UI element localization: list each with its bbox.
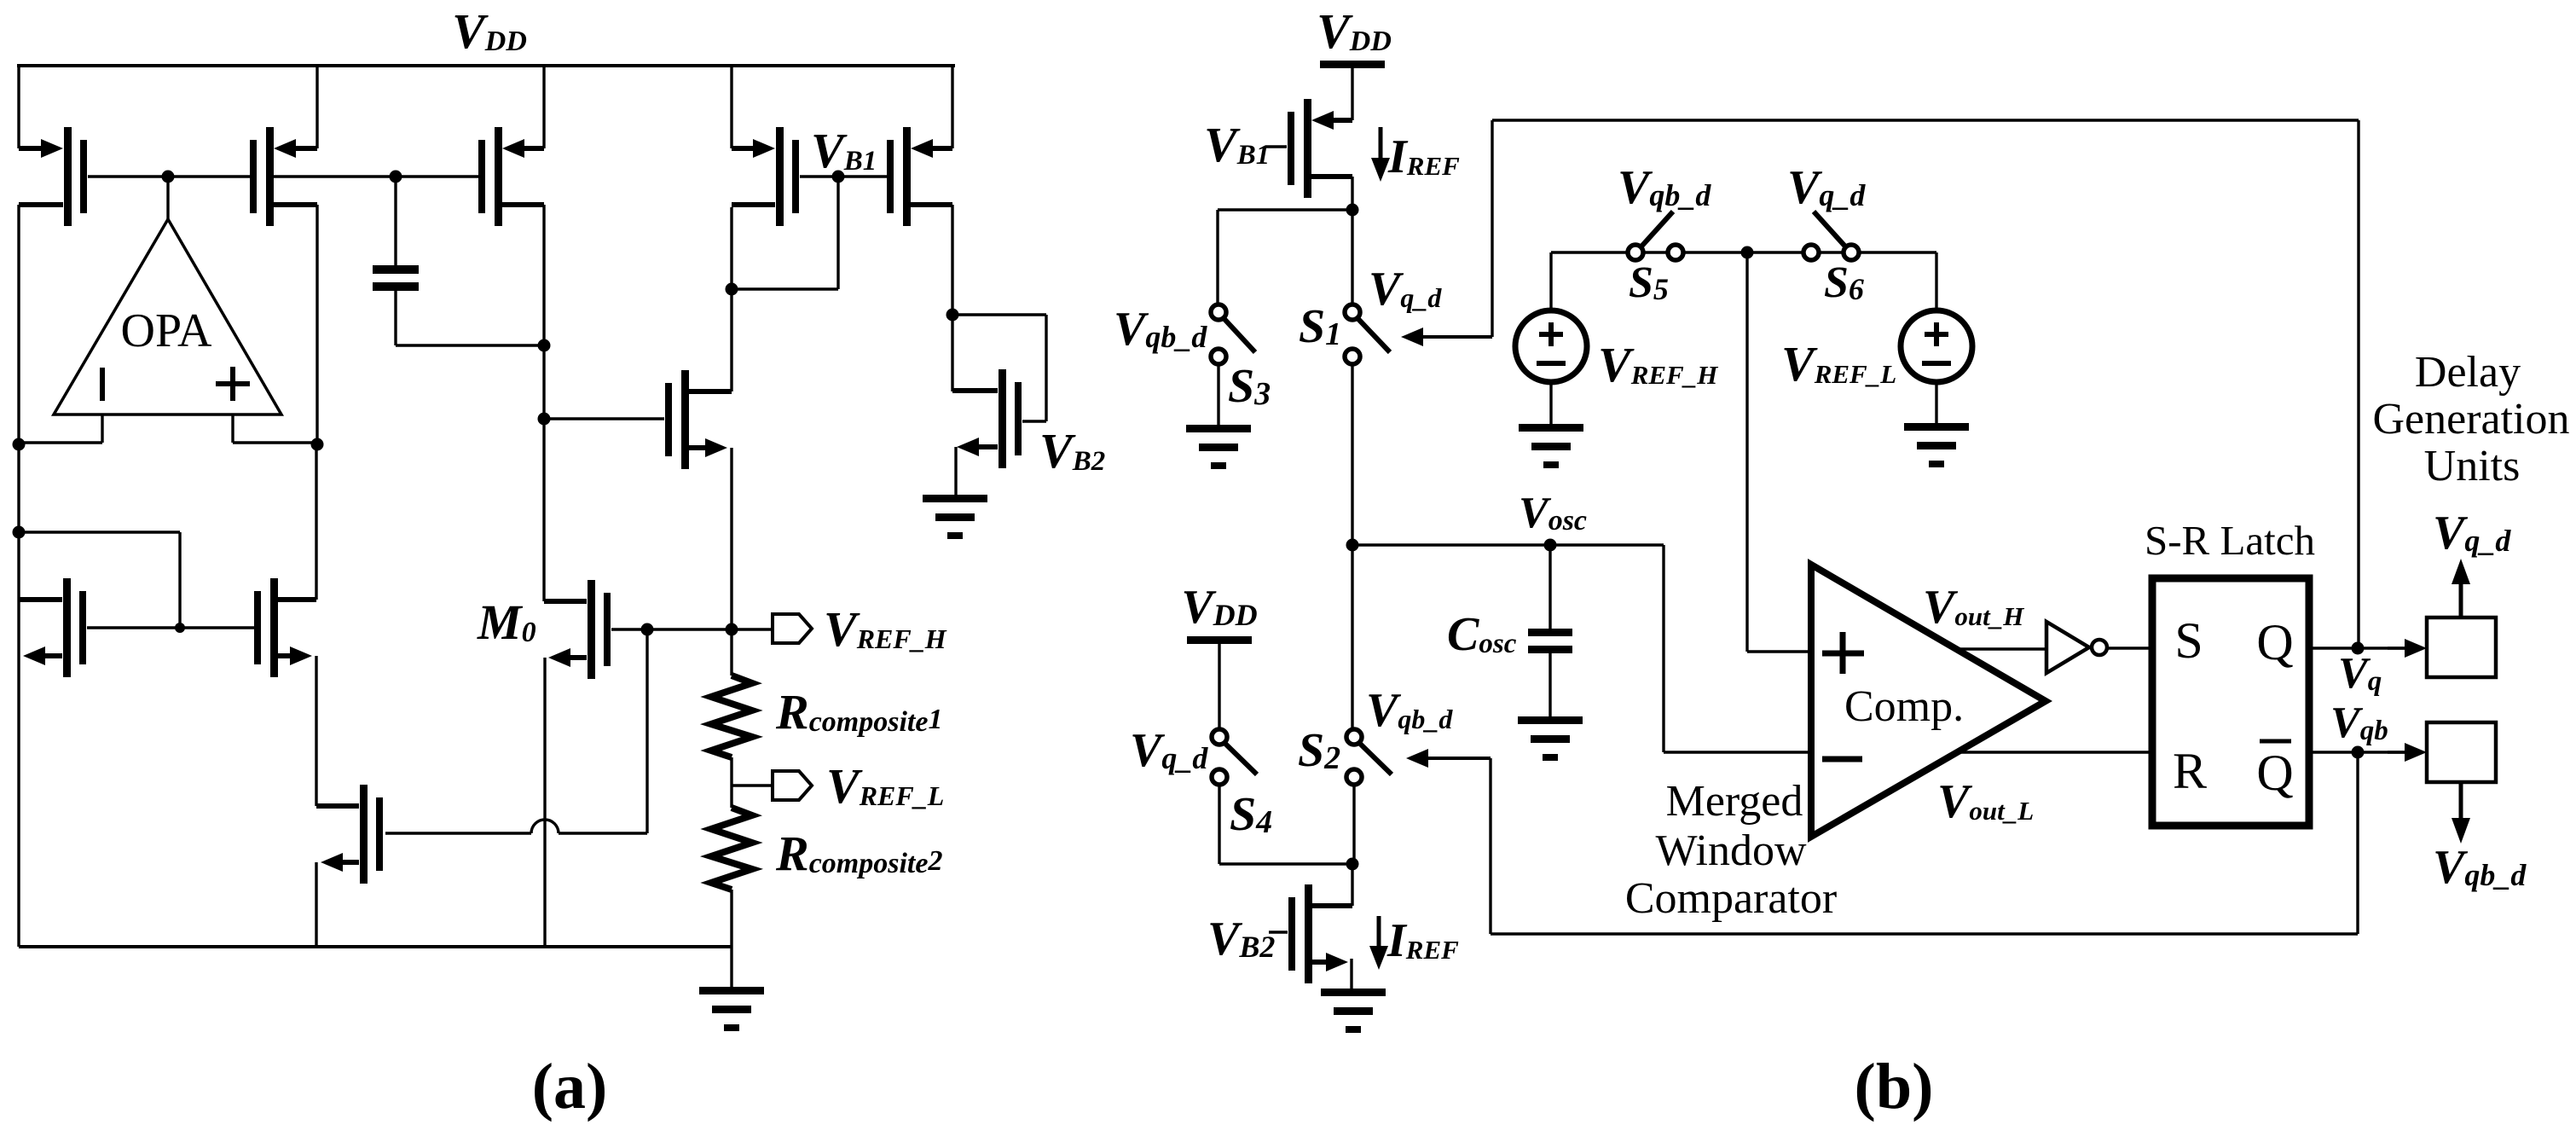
control arrow to S2	[1406, 749, 1491, 934]
wire - NB2 source to ground	[1350, 959, 1352, 989]
switch S4 lever	[1224, 742, 1257, 774]
Vout_H label	[1923, 581, 2024, 634]
OPA label	[121, 304, 212, 357]
wire - NB1 source to ground	[954, 447, 957, 495]
svg-text:Comp.: Comp.	[1844, 682, 1964, 731]
wire - Vout_L to R input	[1957, 751, 2151, 753]
wire - bus to VREF_H source	[1549, 252, 1552, 310]
wire - VDD bar to S4	[1218, 644, 1220, 730]
ground rail (panel a bottom)	[19, 945, 732, 948]
wire - NM4 gate to PM3 drain node	[544, 417, 664, 420]
latch S pin label	[2174, 612, 2203, 669]
ground - panel a main ground	[699, 987, 764, 1031]
wire - left vertical PM1 drain down to ground rail	[17, 205, 20, 947]
ground - VREF_L	[1904, 423, 1969, 467]
wire - M0 gate line to VREF_H connector	[611, 628, 773, 630]
resistor Rcomposite1	[711, 629, 752, 786]
ground - NB2	[1321, 989, 1386, 1033]
node - PB1 gate junction	[832, 171, 845, 183]
wire - cap top connection	[394, 177, 397, 265]
node - IREF bottom node	[1346, 858, 1359, 871]
switch S1 lever	[1357, 317, 1390, 352]
S1 label	[1299, 300, 1341, 353]
S-R Latch label	[2145, 517, 2315, 564]
VDD label (S4)	[1181, 581, 1257, 634]
switch S4 bottom contact	[1212, 769, 1227, 785]
wire - Vosc to S2	[1351, 545, 1353, 730]
wire - NM2 source down to NM3 drain	[315, 656, 317, 806]
Merged Window Comparator label	[1625, 777, 1837, 923]
delay generation unit box (bottom)	[2427, 722, 2496, 782]
node - VREF_H node	[726, 623, 738, 636]
wire - bottom feedback from Qbar	[1491, 752, 2358, 934]
switch S6 right contact	[1844, 245, 1859, 260]
capacitor Cosc bottom plate	[1528, 646, 1572, 653]
wire - M0 source down to ground rail	[543, 658, 546, 947]
svg-text:Generation: Generation	[2372, 395, 2569, 444]
VB2 label (panel b)	[1207, 913, 1275, 965]
S3 label	[1228, 360, 1271, 413]
Vq_d label (delay output)	[2433, 507, 2511, 560]
switch S4 top contact	[1212, 729, 1227, 745]
wire - PM1/PM2/PM3 gate line	[88, 175, 478, 177]
wire - VB1 gate stub	[1265, 145, 1287, 148]
OPA inverting input marker	[100, 368, 105, 401]
transistor PB1 (diode PMOS)	[732, 127, 799, 226]
M0 label	[477, 594, 536, 650]
transistor NM3 (bottom cascode NMOS)	[316, 785, 383, 884]
Rcomposite2 label	[775, 826, 942, 881]
wire - VB2 NMOS gate connection	[952, 315, 1046, 421]
S5 label	[1629, 258, 1669, 307]
wire - PM2 drain down to OPA + node	[315, 205, 318, 443]
wire - S5/S6 junction down to comparator plus	[1747, 252, 1811, 652]
control arrow to S1	[1401, 120, 1492, 346]
wire - NM3 gate wire with hop	[385, 629, 647, 833]
svg-text:Delay: Delay	[2415, 348, 2521, 397]
transistor NB2 (IREF NMOS, VB2)	[1288, 884, 1352, 983]
transistor PB3 (IREF PMOS, VB1)	[1288, 99, 1352, 198]
wire - bus to VREF_L source	[1935, 252, 1937, 310]
wire - S5/S6 bus	[1551, 251, 1936, 253]
transistor PB2 (mirror PMOS)	[887, 127, 952, 226]
transistor NM2 (right NMOS)	[254, 578, 316, 677]
S-R latch box	[2152, 578, 2309, 826]
node - Qbar output node	[2352, 746, 2365, 759]
wire - PB2 source to rail (rail right corner)	[951, 66, 953, 148]
node - NM4 gate junction	[538, 413, 551, 426]
transistor NB1 (VB2 bias NMOS)	[952, 369, 1022, 468]
VB1 label (panel a)	[811, 123, 877, 178]
comparator Comp. triangle	[1811, 565, 2046, 837]
node - NM1 gate junction	[175, 623, 185, 633]
svg-text:Merged: Merged	[1666, 777, 1803, 826]
wire - NM4 drain up to PB1 drain	[730, 207, 732, 391]
VDD supply bar (panel b top)	[1320, 61, 1385, 68]
panel label (b)	[1855, 1051, 1934, 1122]
svg-text:S: S	[2174, 612, 2203, 669]
wire - VREF_L source to ground	[1935, 382, 1937, 423]
node - gate line to compensation cap	[390, 171, 402, 183]
Vq_d label (S4)	[1130, 724, 1208, 777]
wire - OPA output to gate node	[166, 177, 169, 219]
svg-text:Window: Window	[1656, 826, 1807, 875]
switch S6 left contact	[1803, 245, 1819, 260]
Vq label	[2338, 649, 2382, 698]
connector VREF_L (panel a output)	[773, 771, 812, 800]
VDD label (panel b top)	[1317, 3, 1392, 59]
Vout_L label	[1937, 775, 2034, 828]
wire - Cosc bottom	[1548, 653, 1551, 716]
switch S3 top contact	[1211, 304, 1226, 320]
switch S6 lever	[1814, 212, 1846, 247]
switch S5 left contact	[1628, 245, 1643, 260]
capacitor Cosc top plate	[1528, 629, 1572, 636]
ground - VREF_H	[1519, 424, 1583, 468]
wire - PB2 drain down	[951, 205, 953, 391]
VREF_L label (panel a)	[826, 758, 944, 814]
S6 label	[1824, 258, 1864, 307]
wire - VREF_H source to ground	[1549, 382, 1552, 424]
wire - inverter to S input	[2107, 646, 2151, 649]
svg-text:Units: Units	[2424, 442, 2521, 490]
wire - NM1/NM2 gate line	[87, 626, 254, 629]
svg-text:(b): (b)	[1855, 1051, 1934, 1122]
switch S5 right contact	[1668, 245, 1683, 260]
wire - Cosc top	[1548, 545, 1551, 629]
S2 label	[1298, 724, 1340, 777]
switch S1 top contact	[1345, 304, 1360, 320]
VREF_H label (panel a)	[824, 601, 947, 657]
S4 label	[1230, 788, 1272, 841]
latch Qbar pin label	[2256, 741, 2293, 801]
latch R pin label	[2173, 743, 2207, 799]
node - plus input node	[311, 438, 324, 451]
VREF_L label (panel b)	[1781, 336, 1896, 391]
node - M0 gate junction	[641, 623, 654, 636]
current arrow IREF (bottom)	[1369, 916, 1388, 970]
wire - S4 to bottom node	[1219, 784, 1352, 864]
node - IREF top node	[1346, 204, 1359, 217]
wire - PB1 source to rail	[730, 66, 732, 148]
voltage source VREF_H	[1515, 310, 1587, 382]
VREF_H label (panel b)	[1598, 337, 1718, 392]
switch S1 bottom contact	[1345, 349, 1360, 364]
connector VREF_H (panel a output)	[773, 614, 812, 643]
wire - NM4 source down to VREF_H node	[730, 448, 732, 630]
current arrow IREF (top)	[1371, 127, 1390, 182]
transistor PM3 (third PMOS)	[478, 127, 544, 226]
VDD supply bar (S4)	[1187, 636, 1252, 644]
VDD label (panel a)	[452, 3, 527, 59]
wire - node to S3	[1218, 210, 1352, 305]
wire - NM1 drain-gate diode link	[19, 532, 180, 628]
wire - VREF_L tap	[732, 784, 773, 786]
Vqb label	[2330, 699, 2388, 747]
IREF label (top)	[1387, 130, 1460, 183]
ground - NB1 source (panel a right)	[923, 495, 987, 539]
delay generation unit box (top)	[2427, 617, 2496, 677]
transistor PM1 (left PMOS of mirror)	[19, 127, 87, 226]
transistor NM4 (cascode NMOS mid)	[665, 370, 732, 469]
node - Vosc left	[1346, 539, 1359, 552]
voltage source VREF_L	[1901, 310, 1972, 382]
wire - top feedback from Q	[1492, 120, 2359, 647]
node - S5/S6 junction	[1741, 246, 1754, 259]
Delay Generation Units label	[2372, 348, 2569, 490]
latch Q pin label	[2256, 614, 2293, 670]
svg-text:Q: Q	[2256, 745, 2293, 801]
Vqb_d label (S5)	[1618, 161, 1711, 214]
wire - Q output	[2313, 646, 2405, 649]
switch S3 bottom contact	[1211, 349, 1226, 364]
Vosc label	[1519, 489, 1587, 537]
node - cap bottom junction on PM3 drain line	[538, 339, 551, 352]
wire - PB1 diode link	[732, 177, 838, 289]
arrow - Q to delay unit	[2388, 639, 2427, 658]
OPA non-inverting input marker	[216, 367, 250, 401]
transistor M0 (source follower NMOS)	[544, 580, 611, 679]
wire - NM3 source to ground rail	[315, 862, 317, 947]
wire - PM3 source to rail	[542, 66, 545, 148]
transistor PM2 (second PMOS of mirror)	[250, 127, 317, 226]
Vqb_d label (S2)	[1366, 684, 1453, 737]
comparator plus input marker	[1822, 632, 1864, 674]
wire - PM3 drain down to M0 drain node	[542, 205, 545, 601]
node - VB1 diode node	[726, 283, 738, 296]
wire - cap bottom connection	[396, 291, 544, 345]
wire - Vosc to comparator minus	[1664, 545, 1811, 752]
IREF label (bottom)	[1386, 914, 1459, 967]
VB2 label (panel a)	[1039, 423, 1105, 478]
ground - Cosc	[1518, 716, 1583, 761]
wire - Vosc rail	[1352, 543, 1664, 546]
node - PB2 drain node	[946, 309, 959, 322]
wire - left vertical from VDD rail to PM1 source	[17, 66, 20, 148]
transistor NM1 (left NMOS)	[19, 578, 86, 677]
wire - OPA minus input stub	[19, 415, 102, 443]
wire - PB1/PB2 gate line	[800, 175, 887, 177]
node - Q output node	[2352, 642, 2365, 655]
ground - S3	[1186, 425, 1251, 469]
wire - PB3 drain to node	[1351, 177, 1353, 210]
svg-text:(a): (a)	[532, 1051, 608, 1122]
wire - ground stem (panel a)	[730, 947, 732, 987]
VDD power rail (panel a)	[17, 64, 955, 67]
Vqb_d label (delay output)	[2433, 841, 2527, 894]
comparator minus input marker	[1822, 757, 1862, 762]
op-amp OPA triangle	[54, 219, 281, 415]
inverter bubble	[2092, 640, 2107, 655]
Rcomposite1 label	[775, 684, 942, 739]
switch S5 lever	[1641, 212, 1673, 247]
arrow - Vq_d output (up)	[2452, 559, 2470, 617]
capacitor C1 bottom plate	[373, 282, 419, 291]
wire - S2 to bottom node	[1352, 784, 1355, 864]
wire - NM2 drain up to plus node	[315, 444, 317, 600]
wire - OPA plus input stub	[233, 415, 317, 443]
resistor Rcomposite2	[711, 786, 752, 947]
inverter triangle	[2046, 622, 2089, 673]
svg-text:Q: Q	[2256, 614, 2293, 670]
svg-text:R: R	[2173, 743, 2207, 799]
wire - VDD bar to PB3 source	[1351, 68, 1353, 120]
arrow - Qbar to delay unit	[2388, 743, 2427, 762]
wire - node to S1	[1351, 210, 1353, 305]
switch S2 bottom contact	[1346, 769, 1362, 785]
wire - S1 to Vosc rail	[1351, 363, 1353, 545]
svg-text:S-R Latch: S-R Latch	[2145, 517, 2315, 564]
wire - S3 to ground	[1217, 363, 1219, 425]
panel label (a)	[532, 1051, 608, 1122]
wire - VB2 gate stub	[1269, 931, 1288, 933]
switch S2 top contact	[1346, 729, 1362, 745]
switch S3 lever	[1223, 317, 1255, 352]
svg-text:Comparator: Comparator	[1625, 874, 1837, 923]
wire - Qbar output	[2313, 751, 2405, 753]
node - minus input node on left vertical	[13, 438, 26, 451]
Vqb_d label (S3)	[1114, 303, 1207, 356]
svg-text:OPA: OPA	[121, 304, 212, 357]
arrow - Vqb_d output (down)	[2452, 782, 2470, 844]
wire - PM2 source to rail	[315, 66, 318, 148]
wire - node to NB2 drain	[1351, 864, 1353, 906]
node - OPA output to PMOS gates	[162, 171, 175, 183]
capacitor C1 top plate	[373, 265, 419, 274]
node - NM1 diode connection corner	[13, 526, 26, 539]
wire - Vout_H to inverter	[1953, 647, 2045, 650]
VB1 label (panel b)	[1204, 117, 1270, 172]
Cosc label	[1447, 608, 1517, 661]
Comp. label	[1844, 682, 1964, 731]
Vq_d label (S6)	[1787, 161, 1866, 214]
Vq_d label (S1)	[1369, 263, 1442, 316]
node - Vosc cap junction	[1544, 539, 1557, 552]
switch S2 lever	[1358, 742, 1392, 774]
